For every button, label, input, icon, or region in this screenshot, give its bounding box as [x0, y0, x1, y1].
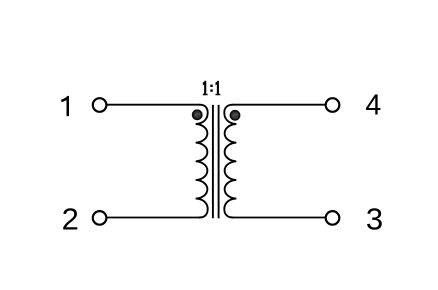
svg-text:4: 4 [365, 90, 381, 122]
svg-text:3: 3 [366, 202, 383, 237]
svg-text:2: 2 [62, 202, 79, 237]
